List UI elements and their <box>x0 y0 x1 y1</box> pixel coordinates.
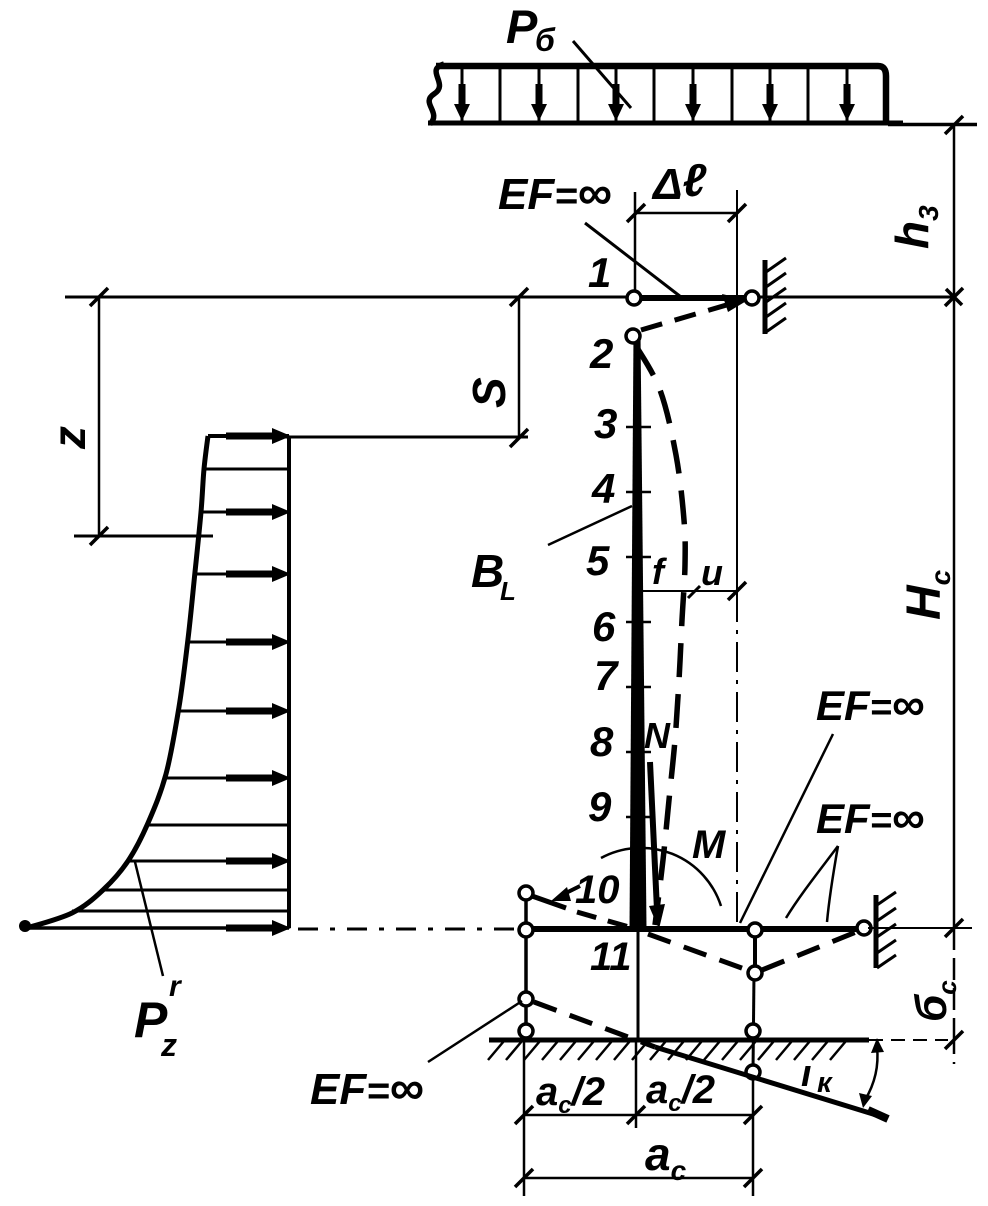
leader right lower branch B <box>827 846 838 922</box>
leader P_b <box>573 41 631 108</box>
svg-text:EF=∞: EF=∞ <box>310 1062 424 1115</box>
svg-text:1: 1 <box>588 249 611 296</box>
EF bottom leader <box>428 1001 522 1062</box>
svg-text:к: к <box>817 1067 833 1099</box>
svg-text:S: S <box>463 377 515 408</box>
svg-text:4: 4 <box>591 465 615 512</box>
svg-text:6: 6 <box>592 603 616 650</box>
wind load bottom edge <box>20 926 289 930</box>
tick dl left <box>627 204 645 222</box>
dimension line h3 <box>953 125 956 297</box>
top support hatches <box>766 258 786 272</box>
link node10 dashed part <box>577 912 636 929</box>
tick u right <box>728 582 746 600</box>
svg-text:EF=∞: EF=∞ <box>816 791 925 843</box>
node L1 <box>519 886 533 900</box>
svg-text:N: N <box>644 715 671 756</box>
dimension line S <box>518 297 521 438</box>
extension line x=753 <box>752 1079 755 1196</box>
dimension line z <box>98 297 101 536</box>
svg-text:бс: бс <box>907 980 962 1022</box>
tick dl right <box>728 204 746 222</box>
tick z top <box>90 288 108 306</box>
dimension line a_c/2 <box>524 1114 753 1117</box>
label 10 arrow <box>564 886 580 894</box>
node L2 <box>519 923 533 937</box>
right support hatches <box>877 892 896 905</box>
dimension line b_c <box>953 928 956 1040</box>
right support hinge <box>857 921 871 935</box>
svg-text:EF=∞: EF=∞ <box>816 678 925 730</box>
column base vertical to ground <box>637 929 640 1040</box>
node R2 <box>748 966 762 980</box>
svg-text:L: L <box>500 576 516 606</box>
svg-text:u: u <box>701 552 723 593</box>
svg-text:M: M <box>692 823 727 867</box>
tick S top <box>510 288 528 306</box>
column node ticks <box>626 426 651 429</box>
ground hatches <box>488 1041 504 1060</box>
svg-text:ac: ac <box>645 1128 687 1186</box>
rigid strut node1-support EF=inf <box>640 295 748 301</box>
column tapered solid bar <box>630 333 647 928</box>
svg-text:10: 10 <box>575 868 620 912</box>
svg-text:ac/2: ac/2 <box>536 1070 605 1119</box>
h3 extension line <box>888 124 977 127</box>
node 2 <box>626 329 640 343</box>
f-u dimension line <box>640 590 737 592</box>
tick h3 top <box>945 116 963 134</box>
svg-text:EF=∞: EF=∞ <box>498 167 612 220</box>
wind load left curve <box>27 436 208 928</box>
svg-text:б: б <box>535 22 556 58</box>
link node10 solid part <box>532 896 566 908</box>
beam extension right thin <box>868 927 972 929</box>
dimension line H_c <box>953 297 956 928</box>
svg-text:ı: ı <box>801 1053 812 1095</box>
z bottom extension line <box>74 535 213 538</box>
N force arrow <box>650 762 657 910</box>
ground dashed extension <box>869 1039 948 1041</box>
tick b_c bottom <box>945 1031 963 1049</box>
dimension line a_c <box>524 1177 753 1180</box>
tick z bottom <box>90 527 108 545</box>
wind load hatch lines <box>204 468 289 471</box>
left riser <box>524 893 528 1032</box>
svg-text:ac/2: ac/2 <box>646 1068 715 1117</box>
dashed strut arrowhead <box>722 294 748 312</box>
node R3 <box>746 1024 760 1038</box>
svg-text:2: 2 <box>589 330 613 377</box>
dashed link base to R2 <box>648 934 750 971</box>
wind load curve end blob <box>19 920 31 932</box>
B_L leader <box>548 506 632 545</box>
top strut level line <box>65 296 954 299</box>
svg-text:P: P <box>506 0 538 53</box>
angle arc i_k <box>865 1047 878 1100</box>
node L4 <box>519 1024 533 1038</box>
svg-text:7: 7 <box>594 652 619 699</box>
wind load right edge <box>287 436 291 928</box>
tick where deflection crosses u line <box>688 586 700 598</box>
load band dividers <box>461 66 464 121</box>
leader P_z <box>135 862 163 976</box>
tick h3 bottom <box>945 288 963 306</box>
svg-text:r: r <box>169 970 183 1003</box>
svg-text:f: f <box>652 551 667 592</box>
svg-text:9: 9 <box>588 783 612 830</box>
ground line <box>489 1038 869 1043</box>
top support hinge circle <box>745 291 759 305</box>
wind load arrows <box>226 433 276 440</box>
load down-arrows <box>459 84 466 106</box>
right riser lower <box>753 973 754 1072</box>
leader right lower branch A <box>786 846 838 918</box>
inclined pile member <box>655 1047 886 1118</box>
svg-text:11: 11 <box>590 935 632 979</box>
node L3 <box>519 992 533 1006</box>
column axis extension above node 1 <box>634 192 637 291</box>
load band left break squiggle <box>429 64 444 124</box>
dashed link R2 to right support <box>762 932 856 970</box>
distributed load P_b top chord <box>436 66 886 121</box>
distributed load bottom chord <box>428 121 903 126</box>
EF top leader <box>585 223 681 297</box>
top support bearing line <box>763 260 768 334</box>
svg-text:5: 5 <box>586 537 610 584</box>
svg-text:Hc: Hc <box>898 569 956 620</box>
right riser upper <box>753 930 757 973</box>
extension line x=524 <box>523 1042 526 1196</box>
svg-text:Δℓ: Δℓ <box>651 154 707 209</box>
node R1 <box>748 923 762 937</box>
tick S bottom <box>510 429 528 447</box>
dashed link L3 to incline <box>534 1002 655 1047</box>
line from load top corner to S line <box>284 436 528 439</box>
svg-text:8: 8 <box>590 718 614 765</box>
deflection dashed curve <box>636 346 685 925</box>
right support bearing line <box>874 895 879 968</box>
node R4 <box>746 1065 760 1079</box>
moment arc <box>601 848 721 906</box>
dashed strut node2-support <box>641 304 730 330</box>
svg-text:h3: h3 <box>886 205 944 249</box>
inclined member end stroke <box>868 1110 888 1119</box>
extension line x=636 <box>635 1042 638 1128</box>
vertical centerline x=737 <box>736 190 738 592</box>
svg-text:z: z <box>160 1027 177 1063</box>
svg-text:3: 3 <box>594 400 617 447</box>
base axis dash line <box>298 928 520 931</box>
foundation beam <box>523 926 868 932</box>
svg-text:z: z <box>43 426 95 450</box>
wind load top edge <box>208 434 289 438</box>
leader right upper <box>740 734 833 923</box>
tick H_c bottom <box>945 919 963 937</box>
node 1 <box>627 291 641 305</box>
dimension line delta-l <box>636 212 737 215</box>
